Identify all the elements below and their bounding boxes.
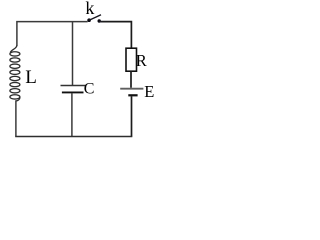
capacitor C top plate [61, 85, 86, 87]
wire: top-left (left rail top + top rail to switch) [17, 22, 88, 46]
svg-text:R: R [136, 51, 147, 70]
wire: top rail from switch to top-right corner, down to resistor [99, 22, 131, 49]
battery E long plate (+) [120, 88, 143, 90]
wire: middle branch upper [72, 22, 74, 86]
svg-text:E: E [144, 82, 154, 101]
svg-text:C: C [84, 80, 95, 97]
switch k left contact dot [87, 18, 91, 22]
svg-text:k: k [85, 0, 94, 18]
resistor R box [126, 48, 137, 71]
switch k blade (open) [89, 15, 101, 21]
capacitor C bottom plate [62, 91, 84, 93]
switch k right contact dot [98, 19, 101, 22]
inductor L coil loops [10, 52, 20, 99]
inductor L lead-in curve [10, 45, 17, 52]
battery E short plate (-) [128, 94, 137, 96]
wire: middle branch lower [71, 93, 73, 136]
wire: bottom rail [15, 136, 132, 138]
inductor L lead-out + left rail bottom [16, 97, 20, 136]
wire: battery to bottom-right corner [131, 96, 133, 136]
svg-text:L: L [25, 67, 37, 88]
wire: resistor to battery [130, 71, 132, 88]
